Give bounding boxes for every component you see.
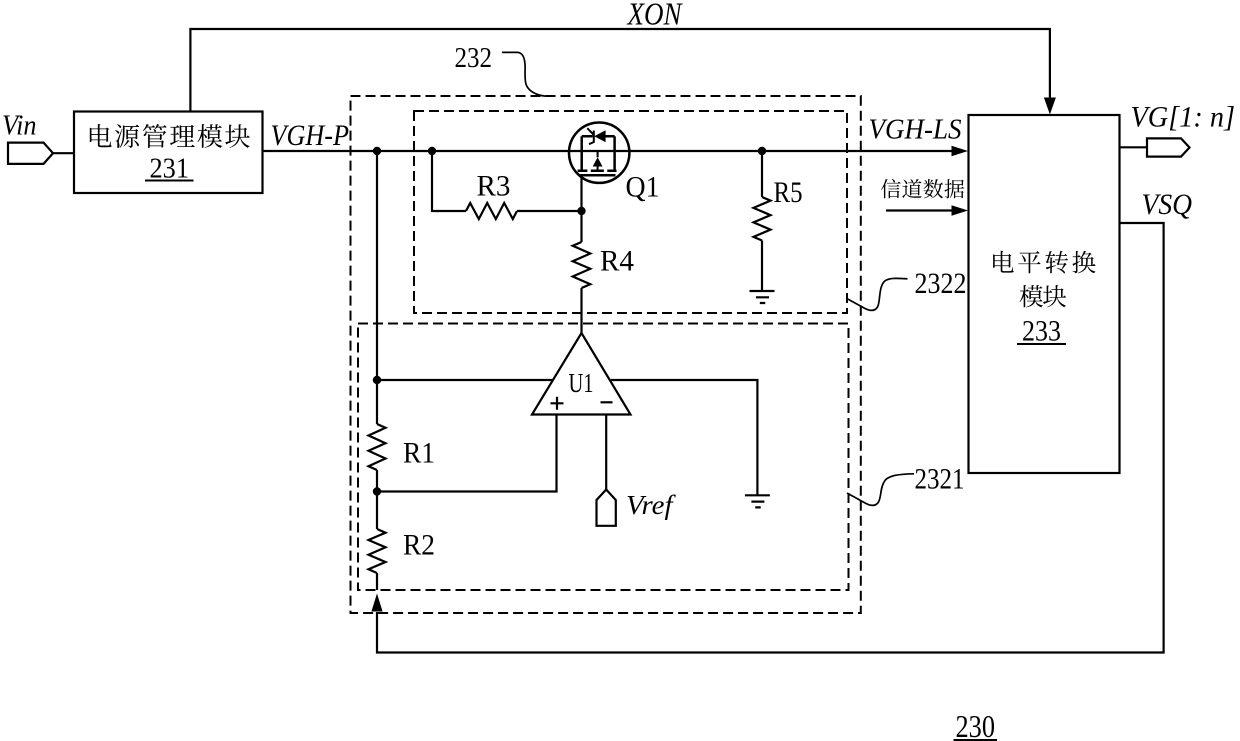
- wire op-amp + input: [377, 415, 557, 492]
- label channel data 信道数据: [881, 179, 901, 198]
- resistor R5: [754, 197, 771, 241]
- terminal Vref: [597, 490, 616, 526]
- terminal Vin: [8, 143, 53, 164]
- wire channel-data arrow lead: [886, 209, 953, 211]
- label module 233 title 模块: [1020, 285, 1043, 307]
- wire R1-R2 node: [376, 470, 378, 529]
- svg-text:Q1: Q1: [626, 171, 660, 204]
- wire VSQ feedback net: [377, 223, 1164, 653]
- arrowhead XON into module 233: [1044, 98, 1056, 115]
- wire R2 to box edge: [376, 573, 378, 590]
- wire op-amp - input: [605, 415, 607, 490]
- resistor R4: [573, 242, 591, 288]
- underline of 230: [954, 739, 998, 741]
- node R1-R2 divider tap: [373, 487, 381, 495]
- leader for label 2321: [847, 474, 914, 506]
- dashed box 232: [351, 96, 861, 613]
- module 233 level shifter box: [969, 115, 1120, 473]
- transistor Q1 (PMOS in circle with body diode): [569, 123, 629, 183]
- op-amp U1: [532, 333, 631, 415]
- svg-text:R5: R5: [774, 176, 803, 209]
- svg-text:2321: 2321: [915, 463, 965, 496]
- resistor R2: [369, 529, 386, 573]
- underline of 231: [145, 180, 194, 182]
- arrowhead channel-data into module 233: [952, 205, 969, 215]
- arrowhead VGH-LS into module 233: [952, 146, 969, 156]
- wire op-amp V- supply to ground: [611, 380, 757, 495]
- svg-text:Vref: Vref: [626, 490, 676, 520]
- svg-text:VGH-LS: VGH-LS: [869, 115, 962, 146]
- svg-text:VG[1: n]: VG[1: n]: [1131, 101, 1236, 134]
- wire feedback divider riser: [376, 151, 378, 424]
- wire R5 to ground: [761, 241, 763, 292]
- svg-text:232: 232: [455, 42, 493, 74]
- wire op-amp V+ supply: [377, 379, 552, 381]
- wire R4 to op-amp output: [580, 288, 582, 333]
- svg-text:VGH-P: VGH-P: [271, 119, 350, 152]
- svg-text:R4: R4: [600, 245, 634, 278]
- svg-text:R2: R2: [403, 529, 435, 562]
- wire R3 to gate node: [517, 210, 582, 212]
- leader for label 2322: [847, 278, 908, 310]
- svg-text:XON: XON: [626, 0, 683, 32]
- svg-text:U1: U1: [569, 368, 594, 398]
- wire R3 branch: [432, 151, 466, 211]
- op-amp plus sign: [551, 397, 564, 410]
- node Q1 gate / R3 / R4 junction: [577, 207, 585, 215]
- terminal VG[1:n]: [1120, 146, 1148, 148]
- label module 231 title 电源管理模块: [90, 124, 112, 147]
- svg-text:230: 230: [956, 708, 996, 741]
- node R5 branch junction: [758, 147, 766, 155]
- dashed box 2322: [414, 111, 847, 313]
- node VGH-P riser junction: [373, 147, 381, 155]
- svg-text:VSQ: VSQ: [1142, 188, 1193, 221]
- svg-text:2322: 2322: [915, 267, 967, 300]
- svg-text:233: 233: [1022, 315, 1061, 348]
- leader for label 232: [502, 52, 546, 96]
- module 231 power management box: [74, 112, 263, 194]
- node op-amp supply tap: [373, 376, 381, 384]
- resistor R1: [369, 424, 386, 470]
- ground for R5: [750, 291, 775, 303]
- arrowhead VSQ into dashed box: [371, 594, 382, 612]
- svg-text:Vin: Vin: [2, 110, 37, 142]
- op-amp minus sign: [601, 401, 613, 403]
- wire Q1 gate lead: [580, 175, 582, 242]
- dashed box 2321: [358, 324, 849, 591]
- label module 233 title 电平转换: [993, 251, 1014, 273]
- svg-text:R3: R3: [477, 170, 511, 203]
- ground for op-amp: [745, 495, 770, 507]
- node R3 branch junction: [428, 147, 436, 155]
- resistor R3: [466, 203, 517, 219]
- wire VGH-P / VGH-LS main rail: [263, 150, 953, 152]
- wire XON net: [190, 29, 1050, 112]
- svg-text:R1: R1: [403, 437, 435, 470]
- underline of 233: [1017, 343, 1066, 345]
- wire Vin lead: [53, 152, 75, 154]
- wire R5 branch: [761, 151, 763, 197]
